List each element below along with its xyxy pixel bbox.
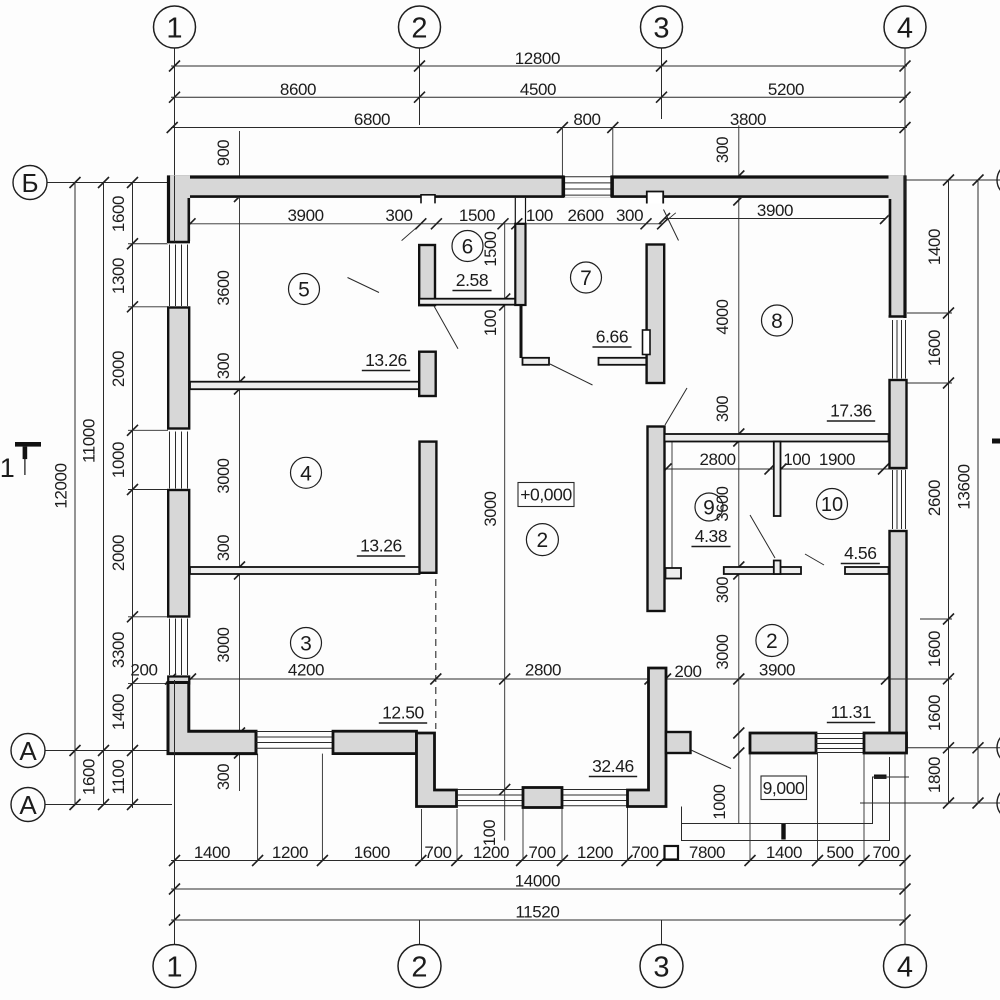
- svg-text:300: 300: [714, 577, 732, 604]
- axis circle 3 bottom: [640, 945, 683, 988]
- svg-text:200: 200: [130, 661, 157, 680]
- left bottom corner L wall: [168, 683, 256, 754]
- axis circle B: [13, 166, 47, 200]
- axis line 1 bottom: [174, 679, 176, 944]
- wall foot room 7 west: [523, 358, 550, 365]
- svg-text:1100: 1100: [109, 760, 128, 795]
- svg-text:9,000: 9,000: [763, 778, 805, 798]
- svg-text:6800: 6800: [354, 110, 390, 129]
- porch steps left: [458, 789, 523, 791]
- svg-text:13.26: 13.26: [360, 536, 402, 556]
- axis circle 1 top: [154, 6, 196, 48]
- axis 1 line through corner L: [174, 680, 176, 758]
- room circle 6: [452, 231, 483, 262]
- partition rooms 5/4: [190, 382, 419, 390]
- bottom wall right corner: [864, 733, 907, 753]
- svg-text:1500: 1500: [459, 206, 495, 225]
- door leaf room 5: [348, 278, 380, 293]
- svg-text:2: 2: [766, 630, 778, 653]
- svg-text:300: 300: [714, 396, 732, 423]
- axis B line: [47, 182, 168, 184]
- closet bar A: [419, 245, 435, 305]
- interior dim chain 3900 room8: [665, 218, 887, 220]
- left dim column 12000: [74, 183, 76, 805]
- closet bar B: [419, 352, 436, 396]
- svg-text:3000: 3000: [482, 491, 500, 526]
- left wall window 1: [169, 245, 171, 307]
- dim row 6800 800 3800: [171, 127, 907, 129]
- door leaf closet 6: [434, 306, 458, 349]
- terrace level flag: [781, 824, 785, 840]
- terrace outline inner: [682, 777, 873, 824]
- level box +0,000: [518, 483, 574, 507]
- door leaf room 8: [665, 388, 687, 425]
- svg-text:2: 2: [411, 951, 427, 983]
- svg-text:2000: 2000: [109, 535, 128, 571]
- svg-text:1900: 1900: [819, 450, 855, 469]
- svg-text:3900: 3900: [287, 206, 323, 225]
- small square symbol bottom chain: [665, 846, 679, 860]
- section mark right: [992, 439, 1000, 444]
- svg-text:9: 9: [703, 497, 715, 520]
- vertical dim line 1500/100/3000: [504, 224, 506, 841]
- svg-text:1400: 1400: [925, 229, 944, 265]
- door leaf room 7: [550, 364, 593, 385]
- svg-text:3: 3: [653, 12, 669, 44]
- level box 9,000: [761, 776, 807, 800]
- svg-text:2600: 2600: [925, 480, 944, 516]
- svg-text:4.56: 4.56: [844, 543, 876, 563]
- axis circle 2 bottom: [398, 945, 441, 988]
- svg-text:8600: 8600: [280, 80, 316, 99]
- door leaf terrace: [691, 750, 731, 769]
- svg-text:1600: 1600: [80, 759, 99, 795]
- interior dim chain 3900/300/1500/100/2600/300: [190, 223, 663, 225]
- svg-text:3000: 3000: [215, 458, 233, 493]
- leader top chain left: [402, 224, 421, 241]
- svg-text:1300: 1300: [109, 258, 128, 294]
- bottom extension lines: [257, 754, 259, 861]
- bottom wall right section west: [750, 733, 816, 753]
- svg-text:1600: 1600: [354, 843, 390, 862]
- svg-text:12.50: 12.50: [382, 703, 424, 723]
- left dim column 11000 1600: [103, 183, 105, 805]
- svg-text:2.58: 2.58: [456, 270, 488, 290]
- svg-text:А: А: [19, 736, 37, 766]
- svg-text:1: 1: [0, 453, 14, 483]
- partition rooms 4/3: [190, 567, 420, 574]
- svg-text:13600: 13600: [955, 464, 974, 509]
- bottom wall room3: [333, 731, 417, 753]
- svg-text:4: 4: [897, 12, 913, 44]
- vertical extension line room9: [671, 441, 673, 570]
- svg-text:1500: 1500: [482, 231, 500, 266]
- svg-text:1: 1: [166, 951, 182, 983]
- closet bar C: [420, 442, 437, 573]
- svg-text:7: 7: [580, 267, 592, 290]
- axis circle 2 top: [399, 6, 441, 48]
- svg-text:4.38: 4.38: [695, 526, 727, 546]
- window extension lines top: [561, 128, 563, 177]
- svg-text:32.46: 32.46: [592, 756, 634, 776]
- svg-text:1000: 1000: [109, 442, 128, 478]
- svg-text:700: 700: [528, 843, 555, 862]
- svg-text:2: 2: [537, 529, 549, 552]
- door leaf room 10 east: [805, 554, 824, 565]
- svg-text:800: 800: [573, 110, 600, 129]
- svg-text:1000: 1000: [711, 784, 729, 819]
- right wall pier 1: [890, 380, 907, 468]
- svg-text:11000: 11000: [80, 419, 99, 463]
- svg-text:200: 200: [674, 662, 701, 681]
- svg-text:1: 1: [166, 12, 182, 44]
- wall rooms 9/10: [774, 442, 781, 517]
- top wall notch 300: [421, 195, 435, 204]
- room circle 8: [762, 305, 793, 336]
- svg-text:4: 4: [897, 951, 913, 983]
- left wall corner cap: [168, 677, 189, 684]
- right exterior wall upper: [889, 176, 907, 318]
- svg-text:1400: 1400: [194, 843, 230, 862]
- rooms 9/10 top wall: [665, 434, 889, 442]
- svg-text:11.31: 11.31: [831, 702, 872, 722]
- svg-text:300: 300: [215, 353, 233, 380]
- axis line 4 bottom: [904, 755, 906, 944]
- svg-text:1600: 1600: [109, 196, 128, 232]
- axis A1 line: [46, 750, 171, 752]
- corridor east wall: [648, 427, 665, 612]
- right dim column 13600: [977, 180, 979, 803]
- dim row 12800: [171, 65, 907, 67]
- svg-text:4200: 4200: [288, 661, 324, 680]
- svg-text:2800: 2800: [525, 661, 561, 680]
- svg-text:100: 100: [482, 310, 500, 337]
- left exterior wall upper: [167, 176, 190, 245]
- right wall window 2: [892, 470, 894, 529]
- axis A1 line right: [874, 747, 1000, 749]
- porch left wall: [417, 733, 457, 807]
- room circle 7: [571, 262, 602, 293]
- svg-text:4500: 4500: [520, 80, 556, 99]
- dim row 14000: [171, 888, 906, 890]
- bottom-left steps window: [256, 731, 333, 733]
- svg-text:1200: 1200: [577, 843, 613, 862]
- axis circle B right partial: [997, 163, 1000, 197]
- svg-text:3900: 3900: [757, 201, 793, 220]
- interior dim chain 2800/100/1900: [665, 468, 906, 470]
- axis circle A1: [11, 734, 45, 768]
- svg-text:1800: 1800: [925, 757, 944, 793]
- svg-text:11520: 11520: [515, 903, 559, 922]
- svg-text:900: 900: [215, 140, 233, 167]
- svg-text:1200: 1200: [272, 843, 308, 862]
- chain line over right wall: [889, 678, 910, 680]
- svg-text:1600: 1600: [925, 631, 944, 667]
- axis B line right: [907, 179, 1000, 181]
- svg-text:А: А: [19, 790, 37, 820]
- wall 9/10 tee: [774, 561, 781, 575]
- svg-text:2: 2: [411, 12, 427, 44]
- svg-text:3600: 3600: [215, 270, 233, 305]
- axis circle 1 bottom: [153, 945, 196, 988]
- room circle 2 hall: [526, 524, 558, 556]
- axis circle 4 top: [884, 6, 926, 48]
- svg-text:12800: 12800: [515, 49, 560, 68]
- bath wall 6.66: [599, 358, 647, 365]
- svg-text:3: 3: [300, 633, 312, 656]
- svg-text:3000: 3000: [215, 627, 233, 662]
- svg-text:2600: 2600: [567, 206, 603, 225]
- door leaf entry: [664, 210, 679, 241]
- wall 7/8 notch tab: [643, 330, 651, 355]
- svg-text:300: 300: [385, 206, 412, 225]
- axis A2 line: [46, 804, 173, 806]
- svg-text:Б: Б: [21, 168, 38, 198]
- section mark 1 left: [15, 442, 41, 447]
- dashed opening line hall: [435, 579, 437, 729]
- closet 6 bottom wall: [419, 299, 525, 305]
- svg-text:10: 10: [821, 494, 843, 516]
- svg-text:4000: 4000: [714, 299, 732, 334]
- room circle 5: [289, 274, 320, 305]
- svg-text:3900: 3900: [759, 661, 795, 680]
- top wall notch entry: [647, 192, 663, 204]
- svg-text:13.26: 13.26: [365, 350, 407, 370]
- wall level flag: [874, 775, 887, 779]
- room circle 10: [817, 489, 848, 520]
- axis A2 line right: [860, 802, 1000, 804]
- right wall window 1: [892, 320, 894, 379]
- svg-text:5: 5: [298, 279, 310, 302]
- porch T stub: [666, 732, 691, 753]
- room circle 9: [695, 493, 723, 521]
- left wall pier 2: [168, 490, 189, 617]
- right dim column segments: [948, 180, 950, 803]
- wall rooms 7/8: [647, 245, 665, 384]
- dim row 8600 4500 5200: [171, 96, 907, 98]
- right exterior wall lower: [890, 531, 907, 752]
- svg-text:2000: 2000: [109, 351, 128, 387]
- svg-text:4: 4: [300, 462, 312, 485]
- dim row 11520: [171, 919, 906, 921]
- room circle 4: [291, 457, 322, 488]
- wall rooms 6/7 lower thin: [520, 305, 523, 358]
- svg-text:500: 500: [826, 843, 853, 862]
- svg-text:300: 300: [215, 764, 233, 791]
- svg-text:300: 300: [616, 206, 643, 225]
- porch steps right: [563, 789, 627, 791]
- svg-text:1600: 1600: [925, 695, 944, 731]
- bottom window 500: [816, 733, 864, 735]
- room circle 3: [291, 628, 322, 659]
- right extension lines: [907, 312, 952, 314]
- svg-text:6.66: 6.66: [596, 327, 628, 347]
- leader top chain right: [663, 213, 676, 224]
- axis line 2 top: [419, 48, 421, 125]
- wall 4.56 room 10 bottom: [845, 567, 889, 574]
- left wall window 2: [169, 432, 171, 489]
- svg-text:3000: 3000: [714, 634, 732, 669]
- svg-text:7800: 7800: [689, 843, 725, 862]
- axis circle 3 top: [641, 6, 683, 48]
- svg-text:100: 100: [783, 450, 810, 469]
- svg-text:12000: 12000: [52, 463, 71, 508]
- left dim column segments: [132, 183, 134, 809]
- svg-text:1400: 1400: [766, 843, 802, 862]
- interior dim chain 200/4200/2800/200/3900: [168, 678, 952, 680]
- room 9 west stub: [666, 568, 682, 579]
- svg-text:8: 8: [771, 310, 783, 333]
- axis line 4 top: [904, 48, 906, 177]
- axis line 3 bottom: [661, 920, 663, 944]
- porch pier: [523, 788, 562, 808]
- vertical dim line 300/4000/300/3600/300/3000/1000: [738, 125, 740, 823]
- left wall window 3: [169, 619, 171, 676]
- svg-text:1400: 1400: [109, 694, 128, 730]
- left extension lines: [128, 243, 168, 245]
- porch right wall: [628, 668, 667, 807]
- top window opening: [565, 175, 611, 197]
- svg-text:100: 100: [526, 206, 553, 225]
- axis 1 line through top corner: [174, 176, 176, 242]
- svg-text:700: 700: [872, 843, 899, 862]
- svg-text:300: 300: [714, 137, 732, 164]
- svg-text:+0,000: +0,000: [520, 485, 572, 505]
- svg-text:3300: 3300: [109, 632, 128, 668]
- bottom chain row: [171, 860, 906, 862]
- door leaf room 10: [750, 515, 775, 558]
- terrace outline outer: [682, 757, 890, 841]
- svg-text:700: 700: [631, 843, 658, 862]
- axis 4 line through top wall: [904, 176, 906, 200]
- top exterior wall: [167, 176, 907, 199]
- wall rooms 6/7: [515, 224, 525, 305]
- svg-text:2800: 2800: [699, 450, 735, 469]
- rooms 9/2 bottom wall: [724, 567, 801, 574]
- svg-text:6: 6: [462, 236, 474, 259]
- level line through right wall: [873, 776, 910, 778]
- room circle 2 south: [756, 625, 788, 657]
- vertical dim line 900/3600/300/3000: [239, 131, 241, 791]
- svg-text:5200: 5200: [768, 80, 804, 99]
- svg-text:700: 700: [424, 843, 451, 862]
- svg-text:3: 3: [653, 951, 669, 983]
- svg-text:100: 100: [481, 820, 499, 847]
- axis line 3 top: [661, 48, 663, 119]
- svg-text:300: 300: [215, 535, 233, 562]
- svg-text:3800: 3800: [730, 110, 766, 129]
- svg-text:17.36: 17.36: [830, 401, 872, 421]
- left wall pier 1: [168, 308, 189, 429]
- svg-text:1600: 1600: [925, 330, 944, 366]
- axis line 1 top: [174, 48, 176, 243]
- axis line 2 bottom: [419, 920, 421, 944]
- axis circle 4 bottom: [884, 945, 927, 988]
- axis circle A2: [11, 788, 45, 822]
- svg-text:14000: 14000: [515, 872, 560, 891]
